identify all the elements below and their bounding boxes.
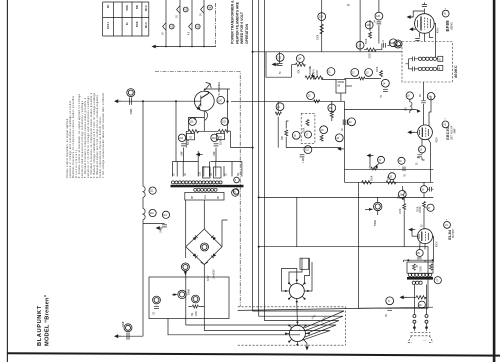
ref circle 102 [221, 118, 229, 126]
V1 grid cap top [422, 3, 427, 14]
svg-text:TAP II: TAP II [312, 69, 315, 76]
IF out wire down [423, 82, 425, 100]
ref circle 113 [304, 146, 312, 154]
svg-text:370V: 370V [208, 275, 210, 281]
IF cap 1 [413, 57, 415, 62]
chassis arrow below socket [305, 341, 307, 346]
tube V3 EBC91 circle [418, 125, 433, 140]
svg-text:AMP: AMP [454, 128, 457, 133]
ground arrow V1 b [409, 27, 416, 31]
resistor x321 [320, 24, 323, 34]
capacitor B1 below box [387, 308, 392, 310]
ref circle 29 [418, 301, 425, 308]
svg-text:.1 MF: .1 MF [303, 157, 305, 163]
resistor 16 [330, 112, 333, 118]
svg-text:50K: 50K [137, 4, 139, 9]
svg-text:variation and measured voltage: variation and measured voltage resistanc… [81, 100, 84, 178]
ref circle V1 [442, 10, 449, 17]
top feed wire x321 [321, 0, 323, 52]
ref circle V4 [444, 222, 451, 229]
wire dial box right [346, 85, 352, 87]
transistor top wire [204, 89, 230, 91]
ref circle 118 [153, 296, 161, 304]
svg-text:30MF: 30MF [123, 321, 125, 327]
junction dot rail1 [252, 51, 254, 53]
AVC bus wire y51.8 [253, 51, 402, 53]
small component boxes above transformer [203, 167, 211, 178]
bridge diode 3 [193, 253, 198, 258]
ref circle 100 [217, 96, 225, 104]
svg-text:100K: 100K [196, 311, 198, 317]
ref circle 18 [320, 126, 328, 134]
bridge rectifier feed wires [186, 200, 228, 247]
svg-text:(6BA6): (6BA6) [451, 22, 454, 29]
volume pot wiper arrow [312, 73, 314, 75]
ref circle 103 [178, 134, 185, 141]
svg-text:3V: 3V [201, 13, 203, 16]
svg-text:EBC91: EBC91 [446, 127, 450, 140]
ground arrow cap112 [156, 226, 163, 230]
mid bus wire y246 [259, 246, 359, 248]
svg-text:3. Battery voltage maintained: 3. Battery voltage maintained at 6.3 vol… [93, 92, 96, 178]
ref circle 101 [189, 118, 197, 126]
cap on y169 [403, 167, 405, 172]
ground arrow V1 a [407, 15, 414, 19]
wire 120 [189, 306, 205, 308]
V4 right lead [432, 236, 435, 247]
top feed wire x378 [378, 0, 380, 43]
ref circle 33 [398, 157, 405, 164]
capacitor 103 [181, 144, 186, 146]
IF coil row 1 [418, 57, 436, 60]
ref circle B1 double [201, 243, 209, 251]
wire step to volume [266, 52, 291, 77]
ref circle 21 [276, 103, 284, 111]
ref circle 13 [365, 69, 373, 77]
wire res ends [414, 294, 426, 301]
vibrator socket pins [285, 279, 309, 303]
capacitor 112 [162, 225, 167, 227]
ref circle 14 [382, 79, 390, 87]
resistor R101 [189, 130, 199, 133]
ref circle 16 [328, 104, 336, 112]
svg-text:30K: 30K [388, 175, 390, 180]
output transformer primary loops [408, 273, 432, 276]
svg-text:300K: 300K [377, 66, 379, 72]
svg-text:50MA: 50MA [374, 220, 377, 226]
svg-text:11A: 11A [204, 195, 207, 199]
capacitor 26 [430, 187, 432, 192]
svg-text:12V: 12V [214, 269, 216, 274]
ref circle 126 [375, 12, 383, 20]
resistor 21 [275, 112, 281, 115]
transistor hook curve [204, 111, 208, 121]
svg-text:Pin 6: Pin 6 [146, 5, 148, 11]
ref circle 116 double [181, 263, 189, 271]
mid bus wire y197 [259, 196, 434, 198]
svg-text:variation of 10-20% in voltage: variation of 10-20% in voltage and resis… [87, 95, 90, 178]
capacitor 126 [377, 22, 382, 24]
terminal dots [413, 326, 416, 329]
ref circle 131 double [124, 324, 132, 332]
resistor 18 [320, 135, 323, 141]
transistor base bar [200, 96, 202, 107]
wire bus y260 [404, 247, 434, 262]
heater filament 1 [163, 23, 166, 31]
ref circle N in box [386, 297, 394, 305]
capacitor 104 [214, 144, 219, 146]
heater bus ground arrow [152, 45, 159, 49]
svg-text:Volume control maximum, no sig: Volume control maximum, no signal applie… [66, 118, 69, 178]
resistor 124 [295, 63, 305, 66]
tone pot wiper [376, 163, 380, 167]
ground arrow cap123 [272, 63, 279, 67]
ref circle 28 [416, 250, 423, 257]
driver transformer core [171, 185, 244, 188]
ground arrow mid [196, 153, 203, 157]
heater ref circle 2 [183, 7, 188, 12]
resistor 19v [285, 130, 288, 136]
svg-text:6. Volume control at maximum,: 6. Volume control at maximum, no signal … [78, 93, 81, 178]
pot arrow 119 [174, 293, 178, 296]
svg-text:POWER TRANSFORMER &: POWER TRANSFORMER & [231, 0, 235, 44]
B+ rail 2 [259, 0, 343, 316]
tone wiper arrow [365, 209, 369, 211]
voltage table grid [103, 2, 149, 36]
junction dot rail y147 [252, 147, 254, 149]
choke L1 [143, 186, 145, 197]
V1 pin cap [415, 39, 420, 41]
bridge diode 4 [211, 253, 216, 258]
V1 bottom pins [420, 33, 434, 42]
ref circle 121 double [394, 40, 402, 48]
svg-text:OUTPUT: OUTPUT [453, 228, 455, 238]
IF transformer dashed box [402, 42, 452, 83]
lower socket pins [285, 321, 310, 346]
emitter wire down [203, 111, 205, 131]
svg-text:330K: 330K [318, 34, 320, 40]
svg-text:500K: 500K [188, 139, 190, 145]
wire to cap 112 [143, 222, 165, 224]
ref circle 30 [406, 92, 413, 99]
ref circle 108 [234, 177, 240, 183]
ref circle 20 [348, 118, 356, 126]
svg-text:1. DC voltage measurements ta: 1. DC voltage measurements taken with va… [102, 92, 105, 178]
capacitor 24 [421, 101, 426, 103]
ref circle 120 [192, 295, 200, 303]
audio section box [149, 277, 229, 319]
tone pot resistor [371, 167, 377, 170]
svg-text:1000 n: 1000 n [108, 21, 110, 29]
wire cap to EBC91 [424, 96, 437, 126]
wire choke EL84 [402, 186, 404, 200]
output transformer core [407, 277, 433, 280]
tone pot circle double [374, 202, 382, 210]
wire stubs into transformer [177, 151, 232, 177]
junction dot [175, 100, 177, 102]
V4 internals [419, 232, 428, 242]
capacitor 123 [277, 63, 283, 65]
transistor T1 circle [194, 91, 214, 111]
resistor R102 [218, 129, 228, 132]
ref circle 109 [233, 189, 239, 195]
resistor avc1 [306, 120, 309, 126]
transistor collector [201, 91, 209, 98]
dial lamp box [336, 80, 346, 93]
svg-text:500K: 500K [372, 175, 374, 181]
svg-text:11B: 11B [200, 171, 202, 175]
svg-text:HEATER FILAMENTS ARE: HEATER FILAMENTS ARE [235, 1, 239, 44]
svg-text:500K: 500K [366, 38, 368, 44]
transformer top loops [172, 181, 223, 184]
svg-text:Pin 9: Pin 9 [146, 22, 148, 28]
wire y169 [344, 168, 433, 170]
ground arrow right [416, 110, 419, 112]
power section dashed box bottom [238, 344, 346, 346]
heater bus wire [156, 46, 217, 48]
ground arrow top-left [114, 99, 121, 103]
heater filament 4 [201, 6, 204, 14]
svg-text:MODEL “Bremen”: MODEL “Bremen” [45, 294, 51, 346]
pot circle 119 [178, 290, 186, 298]
bottom bus 4 [186, 325, 336, 331]
tube V1 EF89 circle [415, 14, 435, 34]
label box R102 [217, 133, 225, 139]
AVC wire y101 [231, 100, 344, 102]
V1 internals [418, 17, 431, 31]
svg-text:500K: 500K [221, 139, 223, 145]
heater wire V5 [165, 0, 167, 47]
wire 125 to IF [387, 42, 402, 46]
wire 25 down [417, 153, 425, 160]
ref circle 112 [162, 211, 169, 218]
svg-text:10mA: 10mA [213, 273, 216, 279]
capacitor 28 [417, 258, 422, 260]
volume pot resistor [305, 76, 315, 79]
ref circle 128 [365, 21, 373, 29]
ref circle 17 [305, 131, 312, 138]
svg-text:300K: 300K [370, 53, 372, 59]
ref circle 104 [211, 134, 218, 141]
page left border [7, 0, 8, 362]
junction dot rail2 y246 [258, 246, 260, 248]
speaker dashed cone [408, 336, 433, 343]
IF terminal box B [438, 65, 443, 70]
wire 26 [424, 182, 433, 198]
svg-text:3V: 3V [163, 32, 165, 35]
ref circle 11 [327, 68, 335, 76]
lower socket circle [289, 326, 305, 342]
pot 117 circle [185, 266, 187, 268]
output transformer top box [407, 262, 433, 273]
ref circle V3 [442, 121, 449, 128]
box inner resistor b [429, 264, 432, 270]
transistor emitter with arrow [197, 104, 201, 109]
V4 left wire to arrow [411, 230, 414, 237]
lower socket diagonal feeds [302, 311, 344, 340]
wire audio line vertical [175, 101, 177, 161]
ref circle 22 [335, 134, 343, 142]
heater dashed wire [215, 3, 217, 47]
wire driver row left [172, 148, 198, 177]
choke feed EL84 [403, 190, 405, 200]
heater wire V3b [191, 0, 193, 47]
resistor 15 [314, 100, 320, 103]
resistor on y182 left [362, 181, 372, 184]
ref circle 27 [427, 204, 434, 211]
vertical x358 upper [358, 182, 360, 246]
bridge diamond [186, 229, 222, 265]
bus wire y310 [238, 307, 433, 310]
arrow below 116 [184, 271, 187, 275]
ground arrow V4 [408, 228, 415, 232]
svg-text:variation of voltage and resis: variation of voltage and resistance read… [69, 100, 72, 178]
V3 bottom pins [422, 139, 431, 183]
ground arrow tone [367, 154, 374, 158]
B+ rail 3 [265, 0, 339, 321]
transistor base lead [194, 100, 201, 102]
vertical line into audio box [186, 272, 205, 319]
top feed wire x360 [359, 0, 361, 52]
cap 123 drop [279, 52, 281, 64]
resistor 128 [369, 32, 372, 38]
terminal circles top pair [413, 315, 416, 318]
B+ rail 1 [253, 0, 344, 311]
ref circle 123 [276, 54, 284, 62]
EL84 plate cap circle 26 [420, 186, 427, 193]
heater filament 3 [189, 23, 192, 31]
heater filament 2 [177, 6, 180, 14]
svg-text:EF89: EF89 [445, 20, 450, 32]
capacitor 125 [383, 43, 385, 48]
capacitor 25 [418, 155, 423, 157]
wire driver row right [211, 148, 242, 177]
svg-text:~~~: ~~~ [423, 341, 428, 343]
choke feed wire vertical [142, 101, 144, 336]
shield partition dash line [155, 72, 240, 307]
coil 30 [410, 99, 412, 113]
speaker wires down [414, 285, 426, 315]
svg-text:30MF: 30MF [131, 108, 133, 114]
wire speaker feed top [118, 100, 194, 102]
svg-text:430V: 430V [437, 241, 439, 247]
svg-text:460KC: 460KC [454, 65, 458, 78]
dial box inner mark [338, 81, 345, 83]
wire 23 [403, 197, 405, 246]
svg-text:1000K: 1000K [420, 206, 422, 213]
small module box at bus [300, 258, 309, 269]
svg-text:5. Nominal tolerance componen: 5. Nominal tolerance component values ma… [84, 97, 87, 178]
wire 124 risers [291, 65, 305, 78]
output transformer secondary loops [412, 281, 422, 284]
svg-text:.1 MF: .1 MF [161, 228, 163, 234]
V1 right lead [434, 24, 435, 58]
svg-text:Nominal tolerance on component: Nominal tolerance on component values ma… [72, 95, 75, 178]
svg-text:4. Nominal tolerance on compo: 4. Nominal tolerance on component values… [90, 92, 93, 178]
wire resistor row joins [186, 131, 230, 148]
tube V4 EL84 circle [418, 229, 433, 244]
junction dots y260 [407, 259, 409, 261]
V4 left lead [412, 235, 418, 237]
svg-text:50MA: 50MA [188, 289, 191, 295]
ref circle T1 [232, 189, 239, 196]
ground arrow y147 [337, 147, 344, 151]
terminal circles bottom pair [413, 320, 416, 323]
bridge output wires [185, 247, 204, 277]
vertical feed to vibrator [296, 197, 298, 246]
svg-text:0B: 0B [192, 196, 194, 199]
wire collector down [204, 90, 208, 92]
wire pot to dial box [322, 78, 336, 80]
svg-text:WIRED FOR 6 VOLT: WIRED FOR 6 VOLT [240, 11, 244, 44]
vibrator socket V6 circle [289, 284, 304, 299]
IF wires [406, 59, 438, 69]
transistor inner diagonal [201, 93, 210, 99]
speaker dashed body [411, 329, 431, 336]
Y fork top [201, 262, 208, 265]
svg-text:Socket connections shown as bo: Socket connections shown as bottom views… [99, 116, 102, 178]
ground arrow speaker [400, 295, 407, 299]
ref circle 24 [427, 93, 434, 100]
transformer secondary box [185, 192, 224, 200]
ref circle 19 [292, 131, 300, 139]
resistor 120 [192, 305, 198, 308]
ref circle 130 double [127, 89, 135, 97]
IF coil row 2 [418, 67, 436, 70]
wire y109.6 [344, 109, 416, 111]
dashed AVC boxlet [301, 114, 315, 144]
capacitor 14 [383, 89, 388, 91]
bridge diode 2 [211, 235, 216, 240]
transformer bottom loops [194, 188, 217, 191]
heater ref circle 1 [169, 24, 174, 29]
resistor v 300K [380, 71, 383, 77]
svg-text:3V: 3V [177, 15, 179, 18]
ref circle 32 [389, 173, 396, 180]
ref circle 110 [149, 209, 156, 216]
wire emitter branch right [227, 89, 229, 131]
wire plate down to EL84 [423, 208, 425, 229]
wire 127 [364, 43, 382, 49]
speaker resistor [416, 296, 426, 299]
svg-text:100K: 100K [317, 70, 319, 76]
svg-text:BLAUPUNKT: BLAUPUNKT [37, 305, 43, 346]
input arrow above transistor [205, 82, 211, 90]
wire y147 [231, 147, 342, 149]
capacitor 113 [300, 155, 305, 157]
wire emitter branch left [189, 118, 205, 132]
heater wire V4 [203, 0, 205, 47]
wire 21 vertical [277, 101, 279, 147]
svg-text:VOLUME: VOLUME [310, 65, 312, 75]
choke L2 [143, 209, 145, 220]
plate bus wire y182 [344, 181, 433, 183]
junction dot wire/choke [142, 100, 144, 102]
svg-text:0B: 0B [218, 196, 220, 199]
ref circle 129 [318, 13, 326, 21]
V1 left lead [413, 24, 415, 30]
ref circle 111 [149, 187, 156, 194]
wire between sockets [296, 303, 299, 321]
ground arrow bottom-left [114, 334, 121, 338]
V1 side loop wire [411, 11, 425, 17]
label box R101 [187, 134, 195, 140]
wire row y72 [344, 77, 381, 79]
V3 internals [420, 128, 429, 138]
resistor between 12 13 [359, 77, 365, 80]
wire 16 [331, 101, 333, 121]
ref circle 127 [356, 41, 364, 49]
